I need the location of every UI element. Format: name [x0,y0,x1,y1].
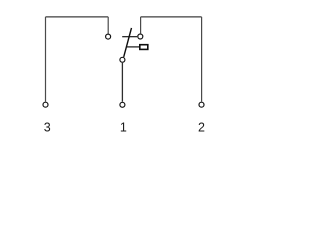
wire: top-right horizontal from right contact stub to terminal-2 branch [141,16,202,18]
svg-text:2: 2 [198,120,205,134]
wire: right vertical down to terminal 2 [201,17,203,102]
terminal 1 circle [120,102,125,107]
actuator link from lever to plunger [127,46,140,48]
wire: left vertical down to terminal 3 [45,17,47,102]
contact: left fixed contact circle [106,34,111,39]
svg-text:3: 3 [44,121,51,135]
svg-text:1: 1 [120,120,127,134]
wire: common pole down to terminal 1 [121,63,123,102]
wire: top-left horizontal from terminal-3 branch to left contact stub [46,16,109,18]
terminal 2 circle [199,102,204,107]
wire: stub down to left fixed contact [107,17,109,34]
wire: stub down to right fixed contact [140,17,142,34]
contact: right fixed contact circle [138,34,143,39]
pivot: common pole contact circle [120,57,125,62]
tick bar across lever at contact level [122,36,137,38]
terminal 3 circle [43,102,48,107]
switch lever (moving contact arm) [124,28,132,57]
actuator plunger rectangle [140,45,148,50]
